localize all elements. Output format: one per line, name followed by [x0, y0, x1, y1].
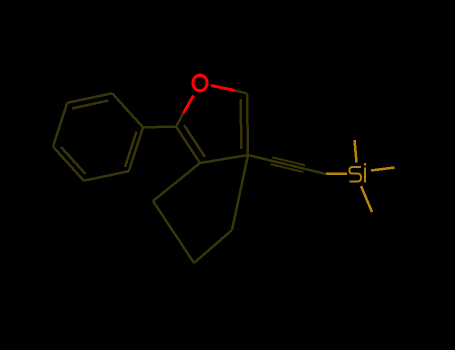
oxygen O label: [193, 75, 207, 91]
wire: hexagon edge v1-v2: [84, 171, 129, 181]
wire: gold bond Si to methyl down: [361, 186, 372, 212]
wire: red bond O-C2: [184, 96, 194, 114]
wire: red bond O-C5: [211, 86, 235, 91]
wire: gold bond Si to methyl right: [371, 168, 395, 171]
silicon Si label: [349, 163, 366, 182]
wire: furan bond C3-C4: [200, 155, 248, 163]
alkyne chain to silicon: [248, 155, 326, 174]
wire: carbon half of O-C5 bond: [235, 91, 247, 94]
wire: furan bond C4-C5: [247, 94, 248, 156]
wire: furan double bond inner C2-C3: [184, 125, 205, 157]
wire: bond P3-C4: [232, 155, 248, 230]
wire: alkyne parallel line lower: [271, 164, 304, 172]
wire: gold bond chain into Si: [326, 172, 347, 175]
wire: furan double bond inner C4-C5: [241, 99, 242, 149]
wire: bond P2-P3: [194, 230, 232, 263]
wire: hexagon edge v4-v5: [67, 93, 112, 103]
wire: bond phenyl to furan C2: [143, 125, 176, 128]
wire: aromatic inner line v2-v3: [61, 147, 86, 174]
wire: bond P1-P2: [153, 201, 194, 263]
wire: carbon half of O-C2 bond: [176, 113, 184, 127]
wire: aromatic inner line v4-v5: [72, 101, 109, 109]
wire: hexagon edge v5-v0: [112, 93, 143, 127]
wire: hexagon edge v3-v4: [53, 103, 67, 147]
furan ring carbons: [176, 91, 248, 164]
wire: hexagon edge v0-v1: [129, 127, 143, 171]
wire: aromatic inner line v0-v1: [125, 132, 137, 168]
benzene ring (phenyl): [53, 93, 176, 180]
wire: gold bond Si to methyl up: [355, 140, 357, 163]
wire: furan bond C2-C3: [176, 127, 200, 164]
wire: alkyne parallel line upper: [272, 157, 305, 165]
wire: bond C4 to alkyne and Si: [248, 155, 326, 174]
wire: bond C3-P1: [153, 163, 200, 201]
cyclopentane ring fused at C3-C4: [153, 155, 248, 263]
wire: hexagon edge v2-v3: [53, 147, 84, 181]
